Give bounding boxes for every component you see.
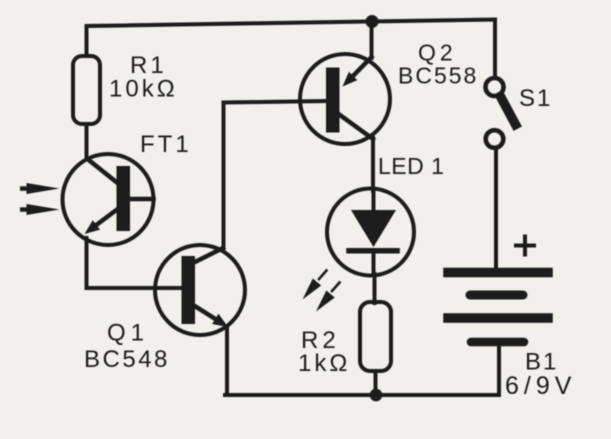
wire junction to Q2 emitter	[370, 22, 374, 59]
svg-text:10kΩ: 10kΩ	[109, 76, 178, 103]
svg-text:Q1: Q1	[107, 320, 149, 347]
wire Q1 collector to Q2 base	[224, 101, 328, 248]
light output arrow lower of LED1	[316, 283, 340, 312]
transistor FT1	[63, 154, 154, 245]
plus sign battery polarity	[516, 237, 534, 255]
resistor R1	[73, 56, 100, 124]
light output arrow upper of LED1	[303, 271, 327, 300]
transistor Q2	[300, 54, 390, 144]
resistor R2	[360, 302, 391, 371]
wire LED1 to R2	[373, 274, 377, 303]
wire FT1 emitter to Q1 base	[87, 238, 182, 288]
svg-text:S1: S1	[519, 85, 552, 112]
wire top rail with corners	[87, 20, 496, 78]
wire Q1 emitter to ground rail	[225, 327, 229, 395]
svg-text:BC548: BC548	[84, 346, 170, 373]
svg-text:LED 1: LED 1	[378, 153, 444, 179]
wire ground rail	[225, 346, 499, 395]
svg-text:BC558: BC558	[398, 63, 478, 89]
wire R2 to ground rail	[374, 371, 378, 395]
svg-text:1kΩ: 1kΩ	[298, 350, 350, 377]
wire R1 to FT1	[85, 124, 89, 157]
svg-text:6/9V: 6/9V	[505, 372, 576, 400]
wire Q2 collector to LED1	[371, 138, 375, 191]
svg-text:FT1: FT1	[140, 131, 192, 158]
wire S1 to battery	[494, 149, 498, 269]
node junction bottom	[370, 389, 383, 402]
battery B1	[448, 273, 548, 343]
transistor Q1	[155, 245, 245, 335]
light input arrow lower	[20, 204, 60, 215]
LED LED1	[327, 189, 414, 276]
light input arrow upper	[20, 183, 60, 194]
switch S1	[486, 78, 516, 148]
node junction top (Q2 emitter tap)	[366, 15, 379, 28]
